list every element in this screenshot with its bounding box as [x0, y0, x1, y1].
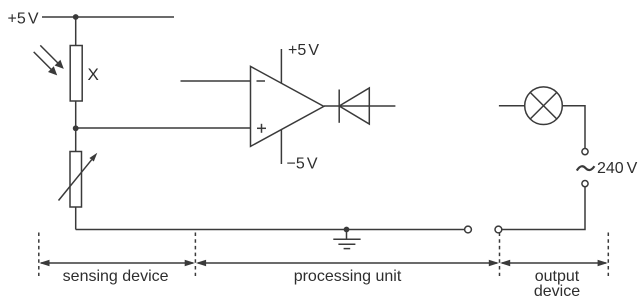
- svg-text:X: X: [88, 65, 99, 84]
- label X: [88, 65, 99, 84]
- node junction on +5V rail: [73, 14, 79, 20]
- op-amp plus sign: [257, 124, 266, 133]
- boundary dashed line processing/output: [499, 233, 501, 277]
- label processing unit: [294, 268, 402, 285]
- wire bottom bus: [76, 229, 465, 231]
- ground junction node: [344, 227, 350, 233]
- wire top +5V rail: [42, 16, 174, 18]
- terminal open circle left: [465, 226, 472, 233]
- wire divider node to op-amp + input: [76, 127, 251, 129]
- lamp left lead: [499, 105, 525, 107]
- wire rail to LDR: [75, 17, 77, 46]
- wire variable resistor to bottom bus: [75, 207, 77, 230]
- terminal open circle right: [495, 226, 502, 233]
- variable resistor arrow: [59, 153, 98, 201]
- variable resistor (rheostat): [70, 152, 82, 208]
- boundary dashed line sensing/processing: [194, 233, 196, 277]
- op-amp output wire: [324, 105, 396, 107]
- diode D1 triangle: [339, 88, 369, 124]
- label ~ 240 V: [577, 166, 595, 170]
- light arrow 1: [40, 45, 64, 69]
- op-amp +5V pin: [280, 49, 282, 83]
- diode D1 cathode bar: [338, 90, 340, 123]
- label sensing device: [63, 268, 169, 285]
- dimension arrow sensing device: [39, 260, 195, 267]
- svg-text:device: device: [534, 283, 580, 300]
- boundary dashed line sensing left: [38, 233, 40, 277]
- wire right terminal to 240V return: [502, 187, 585, 230]
- label +5V supply: [8, 11, 39, 28]
- dimension arrow processing unit: [196, 260, 499, 267]
- label +5V pin: [288, 42, 319, 59]
- node divider junction: [73, 125, 79, 131]
- svg-text:−5 V: −5 V: [287, 156, 318, 173]
- boundary dashed line output right: [607, 233, 609, 277]
- wire node to variable resistor: [75, 128, 77, 152]
- op-amp inverting input wire: [181, 80, 251, 82]
- svg-text:+5 V: +5 V: [8, 11, 39, 28]
- dimension arrow output device: [500, 260, 608, 267]
- label -5V pin: [287, 156, 318, 173]
- lamp: [525, 87, 563, 125]
- light arrow 2: [34, 52, 58, 76]
- op-amp -5V pin: [280, 130, 282, 164]
- svg-text:+5 V: +5 V: [288, 42, 319, 59]
- op-amp minus sign: [257, 80, 266, 82]
- svg-text:240 V: 240 V: [597, 160, 638, 177]
- supply terminal top: [582, 149, 588, 155]
- label output device: [534, 268, 580, 300]
- resistor X (light-dependent resistor): [70, 46, 82, 102]
- lamp right lead to supply: [562, 106, 585, 149]
- op-amp U1 triangle: [251, 66, 324, 146]
- wire LDR to divider node: [75, 101, 77, 128]
- ground: [333, 230, 360, 249]
- svg-text:processing unit: processing unit: [294, 268, 402, 285]
- supply terminal bottom: [582, 181, 588, 187]
- svg-text:sensing device: sensing device: [63, 268, 169, 285]
